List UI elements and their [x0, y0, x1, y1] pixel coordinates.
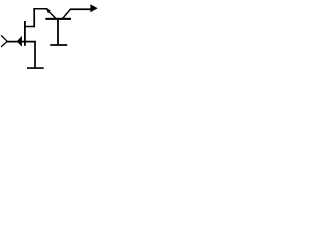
ground bar bottom: [27, 67, 44, 69]
wire drain vertical: [33, 8, 35, 27]
wire source vertical down: [34, 41, 36, 68]
wire gate/source horizontal: [7, 41, 36, 43]
transistor Q2 collector diagonal: [62, 9, 70, 19]
transistor Q2 base lead: [57, 20, 59, 45]
ground bar under Q2 base: [50, 44, 67, 46]
JFET Q1 drain stub: [25, 26, 34, 28]
input terminal IN (open chevron): [1, 35, 7, 47]
JFET Q1 channel bar: [24, 21, 26, 46]
wire top rail: [33, 8, 47, 10]
JFET Q1 gate arrowhead (points left, P-channel): [17, 36, 22, 47]
output arrowhead (filled, points right): [90, 4, 97, 12]
wire right rail to output: [70, 8, 91, 10]
transistor Q2 emitter arrowhead: [46, 8, 51, 13]
transistor Q2 emitter diagonal: [47, 9, 56, 18]
transistor Q2 base bar: [45, 18, 71, 20]
